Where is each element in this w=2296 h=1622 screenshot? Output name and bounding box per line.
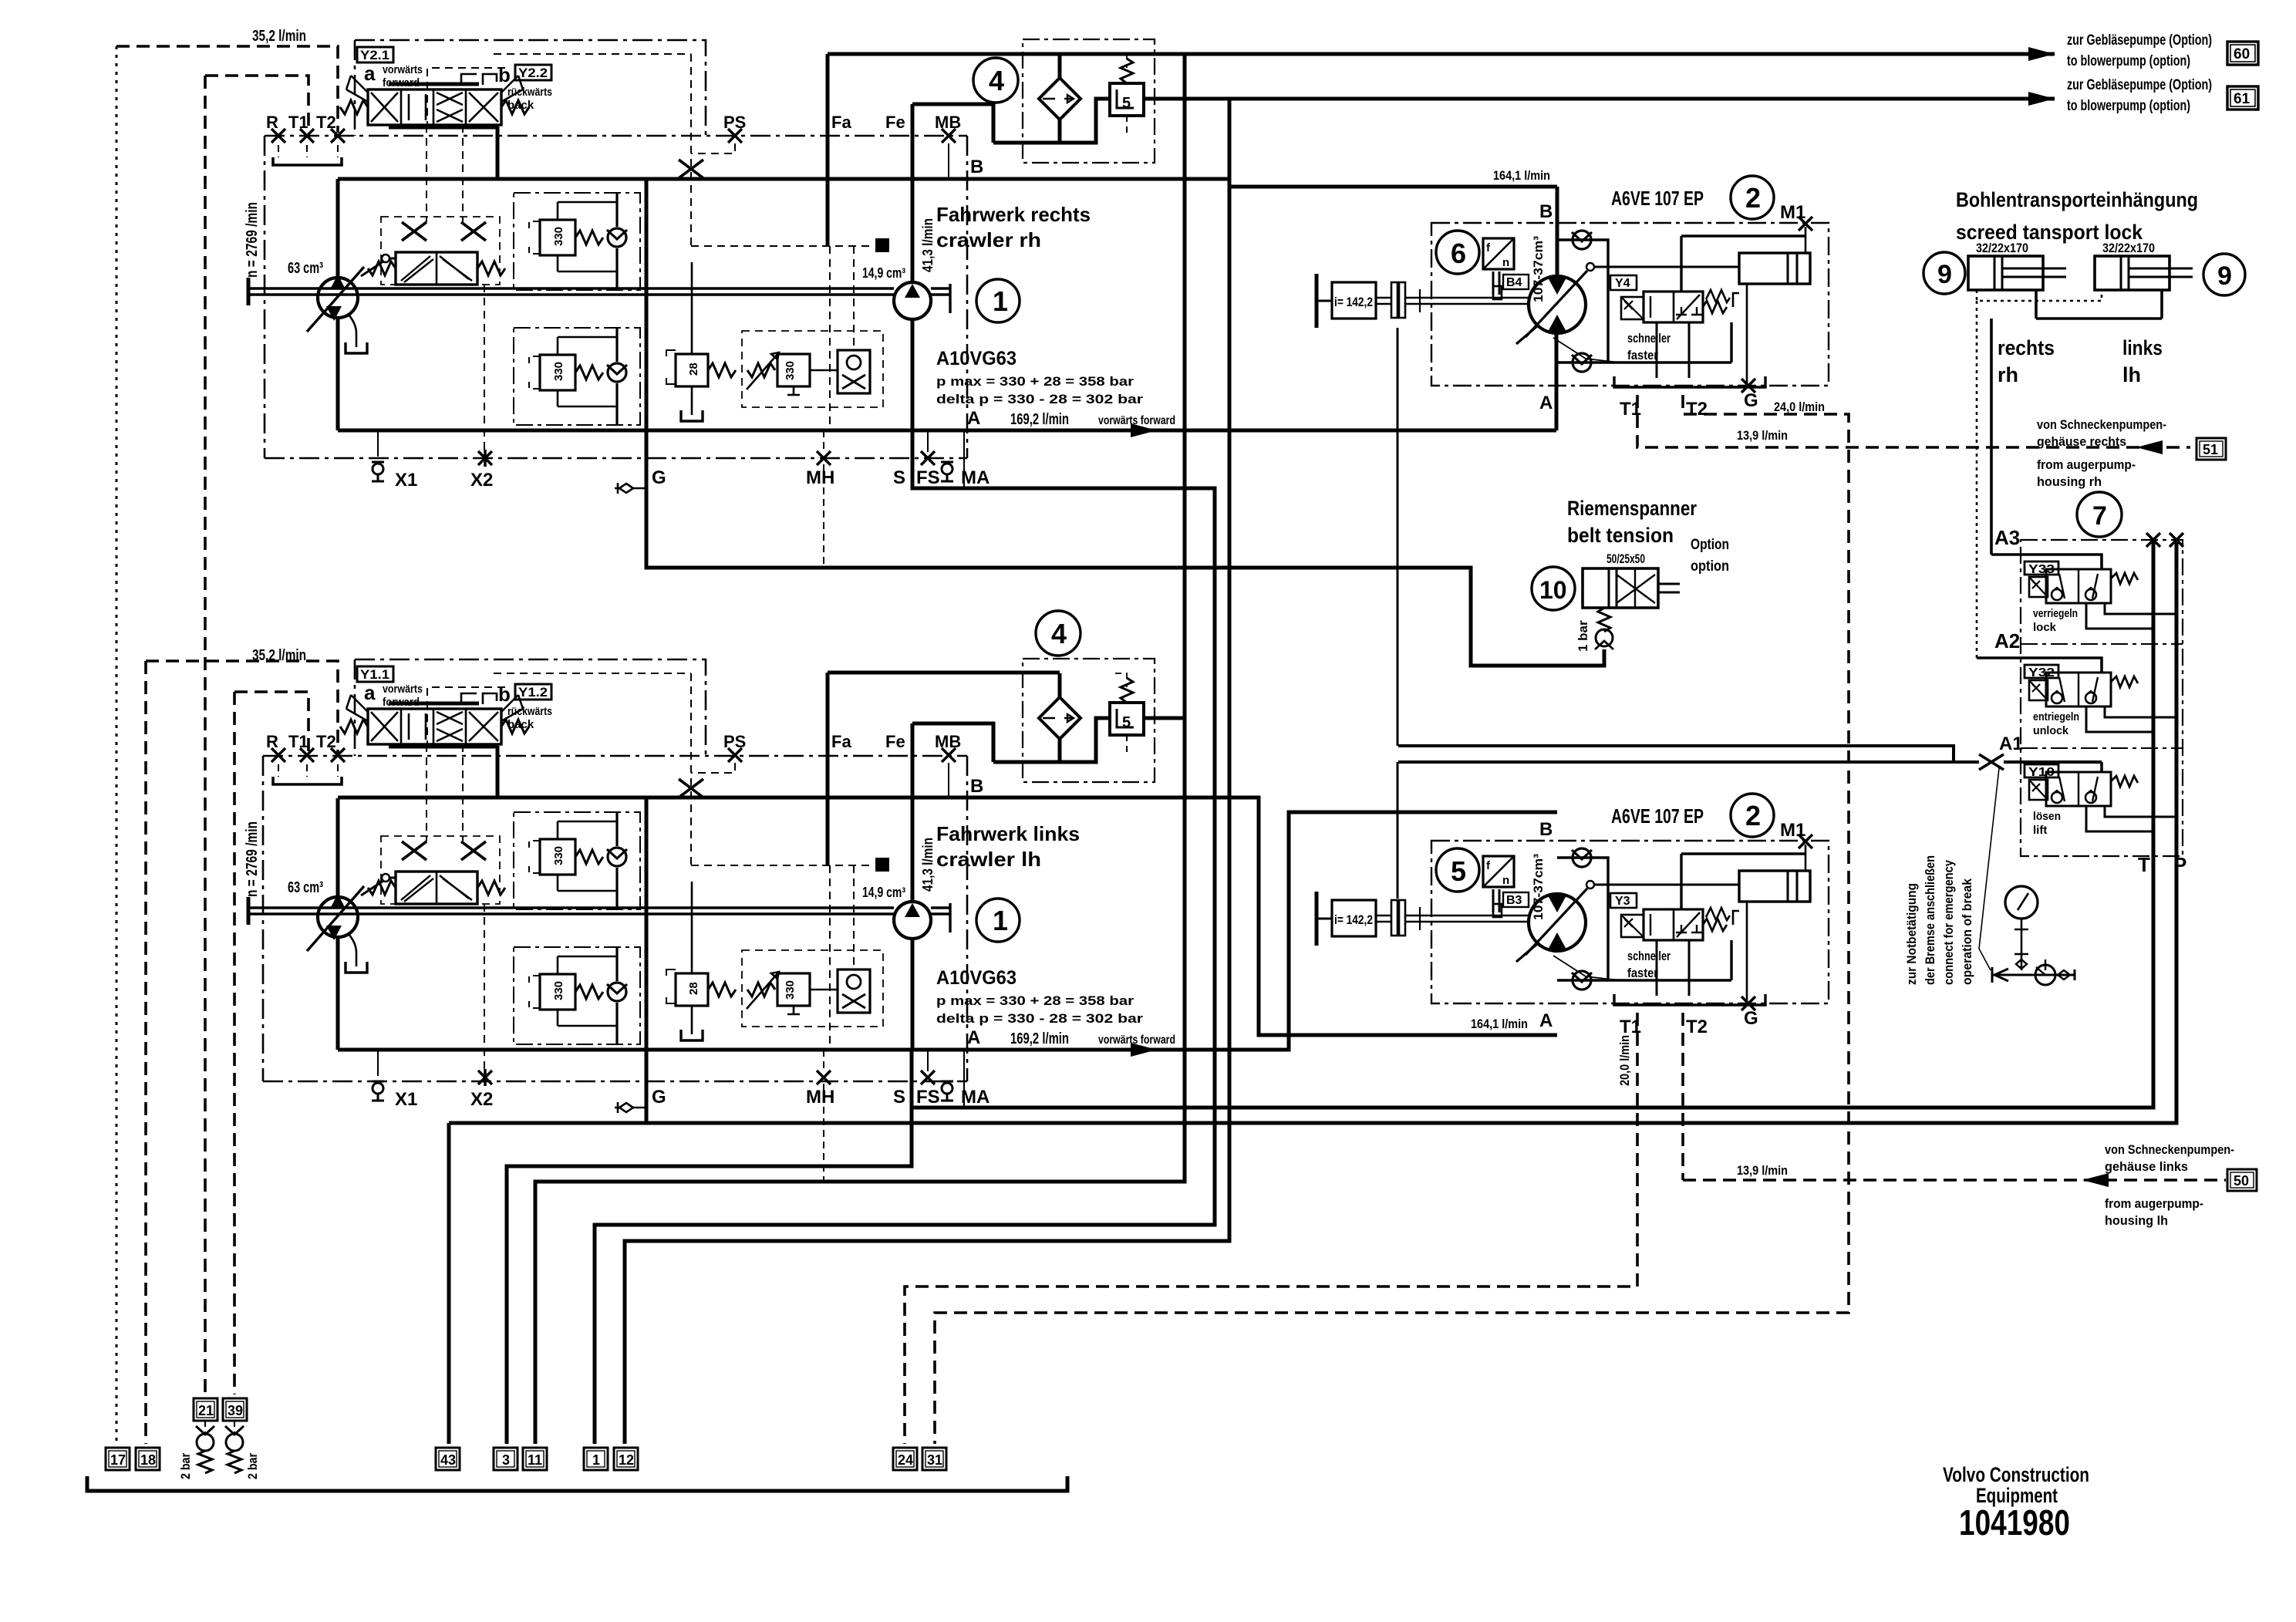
svg-text:28: 28 [687, 363, 700, 376]
svg-text:51: 51 [2203, 442, 2218, 457]
svg-text:A1: A1 [1999, 733, 2023, 754]
svg-text:b: b [498, 63, 511, 86]
wire B-line top pump [338, 177, 1229, 181]
LONGLINES [338, 54, 2176, 1444]
coupling [1391, 282, 1397, 318]
svg-text:f: f [1486, 241, 1491, 255]
valve block 7 boundary [2021, 540, 2183, 856]
wire G line top to belt tensioner [646, 179, 1604, 666]
svg-text:12: 12 [619, 1452, 634, 1468]
bus line [87, 1476, 1067, 1491]
svg-text:M1: M1 [1780, 202, 1805, 223]
dashed 35,2 box bottom [146, 661, 338, 754]
svg-text:i= 142,2: i= 142,2 [1334, 295, 1373, 309]
svg-text:vorwärts: vorwärts [383, 63, 423, 76]
dashed inner box bottom [234, 692, 308, 754]
valve internals [371, 93, 398, 122]
dashed rail x189 [144, 661, 147, 1444]
dashed rail x151 [116, 46, 118, 1444]
svg-text:24: 24 [898, 1452, 913, 1468]
shaft to motor [1405, 298, 1530, 304]
svg-text:FS: FS [916, 467, 940, 488]
wire Fa riser bottom [826, 673, 830, 865]
DA valve cluster [742, 331, 883, 407]
svg-text:13,9 l/min: 13,9 l/min [1737, 1163, 1788, 1178]
dashed pilot drops [426, 125, 463, 222]
check valve loop [1557, 240, 1731, 363]
svg-text:operation of break: operation of break [1960, 878, 1974, 985]
svg-text:B4: B4 [1506, 276, 1522, 289]
dashdot bottom edge pump2 [263, 1081, 967, 1083]
svg-text:option: option [1691, 558, 1729, 575]
wire filter5 out to blowerpump 61 [1142, 97, 2055, 101]
svg-text:35,2 l/min: 35,2 l/min [252, 28, 306, 45]
wire G riser bottom [645, 798, 649, 1123]
svg-text:9: 9 [2217, 261, 2232, 291]
svg-text:5: 5 [1122, 714, 1131, 731]
box 50 [2227, 1169, 2257, 1191]
svg-text:31: 31 [927, 1452, 942, 1468]
wire B-line bottom pump to motor A [338, 798, 1557, 1035]
wire Fa top to blowerpump 60 [828, 52, 2055, 56]
svg-text:A: A [1539, 393, 1553, 413]
f/n sensor [1483, 238, 1514, 269]
svg-text:60: 60 [2234, 46, 2250, 62]
cylinder piping dotted [1977, 290, 2102, 658]
svg-text:b: b [498, 683, 511, 706]
svg-text:32/22x170: 32/22x170 [1976, 241, 2028, 255]
T P verticals [2153, 540, 2176, 1123]
svg-text:delta p = 330 - 28 = 302 bar: delta p = 330 - 28 = 302 bar [936, 392, 1143, 406]
dashdot left edge pump2 [262, 756, 265, 1081]
28 relief valve [691, 262, 693, 415]
connector box 12 [614, 1448, 638, 1470]
svg-text:Volvo Construction: Volvo Construction [1943, 1463, 2089, 1486]
2 bar check valves [204, 1421, 206, 1435]
svg-text:10: 10 [1539, 576, 1567, 604]
dashdot motor boundary [1431, 223, 1829, 386]
tank bracket [1614, 376, 1765, 387]
wire T line bottom to valve block T [912, 540, 2153, 1108]
svg-text:S: S [893, 467, 905, 488]
relief valve 5 [1110, 83, 1144, 116]
svg-text:A6VE 107 EP: A6VE 107 EP [1611, 187, 1704, 210]
svg-text:vorwärts forward: vorwärts forward [1098, 414, 1175, 427]
arrow on S1 line [2136, 440, 2163, 454]
G riser [1746, 284, 1748, 383]
wire 164,1 l/min to motor B top [1229, 185, 1557, 189]
arrow on S0 line [2082, 1173, 2109, 1187]
valve Y10 [2100, 762, 2103, 772]
circled 4 top [973, 58, 1018, 103]
dashdot left edge pump1 [264, 136, 266, 458]
svg-text:Fa: Fa [831, 113, 851, 132]
flow arrow on A-line bottom [1131, 1043, 1157, 1057]
dashed S0 line [1683, 1179, 2226, 1182]
svg-text:from augerpump-: from augerpump- [2037, 457, 2136, 472]
svg-text:50: 50 [2234, 1173, 2249, 1189]
dashdot bottom edge pump1 [265, 457, 967, 460]
box 60 [2227, 42, 2258, 65]
wire Fa riser top [826, 54, 830, 246]
svg-text:Y2.1: Y2.1 [360, 48, 389, 62]
dashed T2 bottom [1681, 1013, 1684, 1180]
svg-text:rückwärts: rückwärts [507, 705, 552, 718]
relief cluster lower [514, 328, 640, 425]
svg-text:forward: forward [383, 696, 420, 709]
svg-text:Y32: Y32 [2028, 666, 2055, 679]
box left edge [336, 179, 340, 430]
PUMPTOP [244, 28, 1175, 565]
dashed T1 bottom [905, 1013, 1637, 1444]
connector box 31 [922, 1448, 946, 1470]
svg-text:6: 6 [1451, 238, 1466, 269]
valve body [1644, 292, 1703, 322]
connector box 17 [106, 1448, 130, 1470]
arrowhead to 61 [2028, 92, 2055, 106]
svg-text:T: T [2138, 853, 2150, 876]
pump circle [318, 278, 358, 318]
svg-text:4: 4 [989, 65, 1004, 96]
svg-text:to blowerpump (option): to blowerpump (option) [2067, 53, 2190, 69]
wire long vertical x1594 to box 12 [625, 97, 1229, 1444]
svg-text:X2: X2 [470, 470, 493, 491]
filter circuit 4 middle instance [993, 659, 1155, 782]
dashdot right edge pump2 [966, 756, 969, 1081]
connector box 3 [494, 1448, 518, 1470]
svg-text:Y1.1: Y1.1 [360, 667, 389, 682]
svg-text:connect for emergency: connect for emergency [1941, 860, 1956, 985]
svg-text:1: 1 [592, 1452, 600, 1468]
svg-text:lock: lock [2033, 621, 2057, 634]
svg-text:rh: rh [1998, 363, 2018, 386]
svg-text:p max = 330 + 28 = 358 bar: p max = 330 + 28 = 358 bar [936, 374, 1134, 389]
wire Fe riser top [911, 104, 915, 281]
svg-text:crawler lh: crawler lh [936, 848, 1041, 871]
wire motor A riser top [1555, 335, 1559, 430]
svg-text:entriegeln: entriegeln [2033, 710, 2079, 723]
valve out to B-line [496, 126, 500, 177]
svg-text:n = 2769 /min: n = 2769 /min [244, 202, 261, 278]
wire A1 line [1398, 760, 1979, 764]
filter diamond [1039, 78, 1081, 120]
valve 4/3 body Y-a/Y-b [368, 89, 501, 125]
svg-text:13,9 l/min: 13,9 l/min [1737, 428, 1788, 443]
wire Fe top jog [912, 104, 993, 143]
svg-text:21: 21 [198, 1403, 214, 1418]
svg-text:MB: MB [935, 113, 961, 132]
svg-text:P: P [2173, 853, 2186, 876]
svg-text:unlock: unlock [2033, 724, 2069, 737]
relief cluster upper [514, 193, 640, 290]
svg-text:a: a [364, 62, 376, 85]
svg-text:1 bar: 1 bar [1576, 620, 1590, 652]
svg-text:5: 5 [1451, 855, 1466, 887]
svg-text:Y1.2: Y1.2 [518, 685, 548, 700]
throttle pair [402, 222, 426, 241]
svg-text:4: 4 [1051, 618, 1067, 649]
dashdot right edge pump1 [966, 136, 969, 458]
svg-text:B3: B3 [1506, 894, 1522, 907]
Y valve label box [1610, 275, 1637, 290]
svg-text:Fahrwerk links: Fahrwerk links [936, 822, 1080, 845]
svg-text:164,1 l/min: 164,1 l/min [1493, 168, 1550, 183]
FILTERS [993, 39, 1155, 163]
circled id [1436, 231, 1479, 274]
svg-text:3: 3 [502, 1452, 510, 1468]
svg-text:PS: PS [723, 113, 746, 132]
svg-text:24,0 l/min: 24,0 l/min [1774, 400, 1825, 414]
svg-text:43: 43 [440, 1452, 456, 1468]
out line middle filter to x1536 [1144, 717, 1185, 720]
lever to pump [382, 255, 389, 262]
svg-text:18: 18 [140, 1452, 156, 1468]
svg-text:Bohlentransporteinhängung: Bohlentransporteinhängung [1956, 188, 2198, 211]
A1 throttle symbol [1979, 754, 2004, 770]
dashdot R line pump2 [263, 755, 967, 757]
spring above [1121, 59, 1133, 83]
svg-text:n: n [1502, 256, 1509, 269]
svg-text:B: B [1539, 201, 1553, 222]
gearbox i=142,2 [1332, 282, 1376, 319]
svg-text:A10VG63: A10VG63 [936, 348, 1017, 369]
svg-text:169,2 l/min: 169,2 l/min [1010, 411, 1069, 428]
solenoid [1621, 297, 1644, 319]
b pilot corner mark [461, 74, 497, 85]
svg-text:belt tension: belt tension [1567, 524, 1674, 547]
case drain to tank [349, 315, 356, 347]
svg-text:A: A [967, 408, 980, 429]
svg-text:zur Gebläsepumpe (Option): zur Gebläsepumpe (Option) [2067, 32, 2212, 49]
svg-text:der Bremse anschließen: der Bremse anschließen [1923, 855, 1937, 985]
X1 X2 [377, 430, 379, 457]
svg-text:Fe: Fe [885, 113, 905, 132]
svg-text:von Schneckenpumpen-: von Schneckenpumpen- [2037, 417, 2166, 432]
valve Y32 [2025, 665, 2138, 706]
svg-text:2 bar: 2 bar [245, 1453, 260, 1479]
svg-text:Y4: Y4 [1615, 277, 1630, 290]
svg-text:164,1 l/min: 164,1 l/min [1471, 1017, 1528, 1031]
solenoid wedge right [501, 76, 523, 102]
dashed inner box top [205, 76, 308, 133]
swash springs [368, 261, 396, 275]
svg-text:faster: faster [1627, 348, 1658, 363]
pump A10VG63 bottom instance (crawler lh) [244, 647, 1175, 1184]
svg-text:T2: T2 [316, 113, 336, 132]
wire A-line top pump [338, 429, 1556, 433]
svg-text:G: G [1744, 390, 1758, 411]
motor A6VE bottom instance (5, B3, Y3) [1317, 794, 1829, 1037]
double spring right [1703, 301, 1727, 313]
svg-text:330: 330 [784, 361, 797, 380]
svg-text:G: G [652, 467, 666, 488]
gauge assembly [2005, 886, 2038, 919]
svg-text:T1: T1 [1620, 399, 1641, 420]
MOTORTOP [1317, 176, 1829, 420]
svg-text:A2: A2 [1994, 629, 2020, 653]
svg-text:forward: forward [383, 76, 420, 89]
dashdot top boundary pump2 [355, 659, 706, 756]
svg-text:zur Gebläsepumpe (Option): zur Gebläsepumpe (Option) [2067, 77, 2212, 93]
spring right [501, 100, 529, 114]
svg-text:verriegeln: verriegeln [2033, 607, 2078, 620]
wire P line to valve block P [449, 540, 2176, 1123]
svg-text:gehäuse rechts: gehäuse rechts [2037, 434, 2126, 449]
svg-text:50/25x50: 50/25x50 [1607, 551, 1645, 566]
dashed T2 top to rail 2397 [935, 395, 1849, 1444]
box 51 [2197, 438, 2226, 460]
svg-text:11: 11 [528, 1452, 542, 1468]
svg-text:Option: Option [1691, 537, 1729, 553]
svg-text:T1: T1 [288, 113, 308, 132]
svg-text:housing lh: housing lh [2105, 1213, 2168, 1228]
return path [993, 99, 1110, 143]
wire motor B riser top [1556, 187, 1559, 278]
dashed rail x304 [233, 692, 236, 1394]
svg-text:Y10: Y10 [2028, 766, 2055, 779]
svg-text:to blowerpump (option): to blowerpump (option) [2067, 98, 2190, 114]
cylinder 9 lh [2095, 256, 2193, 290]
arrowhead to 60 [2028, 47, 2055, 61]
svg-text:9: 9 [1937, 260, 1952, 289]
connector box 21 [194, 1398, 217, 1421]
svg-text:lösen: lösen [2033, 810, 2061, 823]
svg-text:B: B [970, 157, 983, 177]
svg-text:crawler rh: crawler rh [936, 228, 1041, 251]
svg-text:rechts: rechts [1998, 336, 2055, 359]
svg-text:2 bar: 2 bar [178, 1453, 193, 1479]
dashed box around throttles+swash [381, 217, 500, 285]
wire y967 branch [1398, 746, 1954, 762]
svg-text:back: back [507, 99, 534, 112]
dashed rail x266 [204, 76, 207, 1394]
pump A10VG63 top instance labels Y2.1 Y2.2 Fahrwerk rechts [357, 47, 1091, 251]
svg-text:Y2.2: Y2.2 [518, 66, 548, 80]
feed stub [1058, 54, 1062, 78]
svg-text:63 cm³: 63 cm³ [288, 260, 323, 277]
wire A1 into block 7 [2004, 760, 2102, 764]
wire gearbox link vertical [1397, 328, 1399, 899]
svg-text:X1: X1 [395, 470, 417, 491]
solenoid wedge left [346, 76, 368, 102]
circled 1 [976, 279, 1020, 322]
svg-text:A3: A3 [1994, 526, 2020, 549]
connector box 39 [223, 1398, 247, 1421]
dashdot filter box [1023, 39, 1155, 163]
dashdot R line pump1 [265, 135, 967, 137]
wire S riser bottom to box 3 [507, 1050, 912, 1444]
svg-text:from augerpump-: from augerpump- [2105, 1196, 2203, 1211]
svg-text:MH: MH [806, 467, 834, 488]
wire Fe riser bottom [911, 723, 915, 900]
wire A-line bottom pump to motor B [338, 812, 1557, 1050]
svg-text:Riemenspanner: Riemenspanner [1567, 497, 1697, 520]
svg-text:links: links [2122, 336, 2163, 359]
gearbox input T bar [1315, 274, 1319, 328]
connector box 1 [584, 1448, 608, 1470]
swash actuator block [396, 252, 477, 285]
dashdot top boundary pump1 [355, 40, 706, 136]
connector box 24 [893, 1448, 917, 1470]
svg-text:61: 61 [2234, 91, 2250, 107]
svg-text:Fahrwerk rechts: Fahrwerk rechts [936, 203, 1091, 226]
svg-text:a: a [364, 681, 376, 704]
svg-text:Y3: Y3 [1615, 895, 1630, 908]
svg-text:20,0 l/min: 20,0 l/min [1617, 1035, 1632, 1086]
svg-text:32/22x170: 32/22x170 [2102, 241, 2155, 255]
cylinder 9 rh [1968, 256, 2066, 290]
svg-text:2: 2 [1745, 182, 1761, 214]
connector box 11 [523, 1448, 547, 1470]
wire S path top to box 1 [595, 430, 1215, 1444]
svg-text:41,3 l/min: 41,3 l/min [920, 218, 936, 272]
svg-text:back: back [507, 718, 534, 731]
lever to brake cylinder [1586, 263, 1594, 271]
svg-text:schneller: schneller [1627, 331, 1671, 346]
svg-text:17: 17 [110, 1452, 126, 1468]
cylinder piping solid [1991, 290, 2162, 555]
connector box 43 [436, 1448, 460, 1470]
svg-text:rückwärts: rückwärts [507, 86, 552, 99]
wire Fe bottom jog [912, 723, 993, 762]
valve Y33 [2025, 561, 2138, 603]
feed line middle filter [828, 671, 1060, 675]
flow arrow on A-line top [1131, 423, 1157, 437]
circled 9 right [2203, 254, 2245, 295]
shaft double line [248, 288, 894, 295]
svg-text:housing rh: housing rh [2037, 474, 2102, 489]
circled 10 [1532, 567, 1575, 610]
connector box 18 [136, 1448, 160, 1470]
svg-text:gehäuse links: gehäuse links [2105, 1159, 2188, 1174]
svg-text:Y33: Y33 [2028, 563, 2055, 576]
leader line [1979, 768, 1999, 970]
valve 4/3 top bar [389, 83, 479, 86]
svg-text:39: 39 [228, 1403, 243, 1418]
wire 43 column [447, 1123, 451, 1444]
svg-text:zur Notbetätigung: zur Notbetätigung [1904, 883, 1919, 985]
circled 4 middle [1036, 611, 1081, 656]
circled 7 [2077, 492, 2122, 537]
svg-text:7: 7 [2092, 501, 2107, 531]
box 61 [2227, 86, 2258, 110]
svg-text:T2: T2 [1686, 399, 1708, 420]
wire long vertical x1536 to box 11 [535, 54, 1185, 1444]
svg-text:14,9 cm³: 14,9 cm³ [862, 265, 905, 281]
svg-text:5: 5 [1122, 95, 1131, 112]
charge pump [894, 282, 931, 319]
svg-text:MA: MA [961, 467, 990, 488]
svg-text:330: 330 [552, 227, 565, 246]
spring link up to cylinder [1733, 293, 1739, 307]
svg-text:vorwärts: vorwärts [383, 683, 423, 696]
svg-text:1: 1 [993, 285, 1008, 317]
svg-text:330: 330 [552, 362, 565, 381]
circled 9 left [1923, 252, 1965, 294]
belt cylinder [1583, 568, 1658, 608]
svg-text:1041980: 1041980 [1959, 1502, 2070, 1543]
dashed 35,2 box top [116, 46, 338, 133]
dashed T1 top to S1 [1637, 395, 2190, 447]
valve T drops [1657, 322, 1689, 378]
svg-text:lift: lift [2033, 824, 2047, 837]
svg-text:von Schneckenpumpen-: von Schneckenpumpen- [2105, 1142, 2234, 1157]
1bar check under cylinder [1598, 608, 1610, 632]
spring left [340, 100, 368, 114]
svg-text:lh: lh [2122, 363, 2141, 386]
motor circle [1529, 276, 1586, 333]
brake cylinder [1739, 253, 1810, 284]
